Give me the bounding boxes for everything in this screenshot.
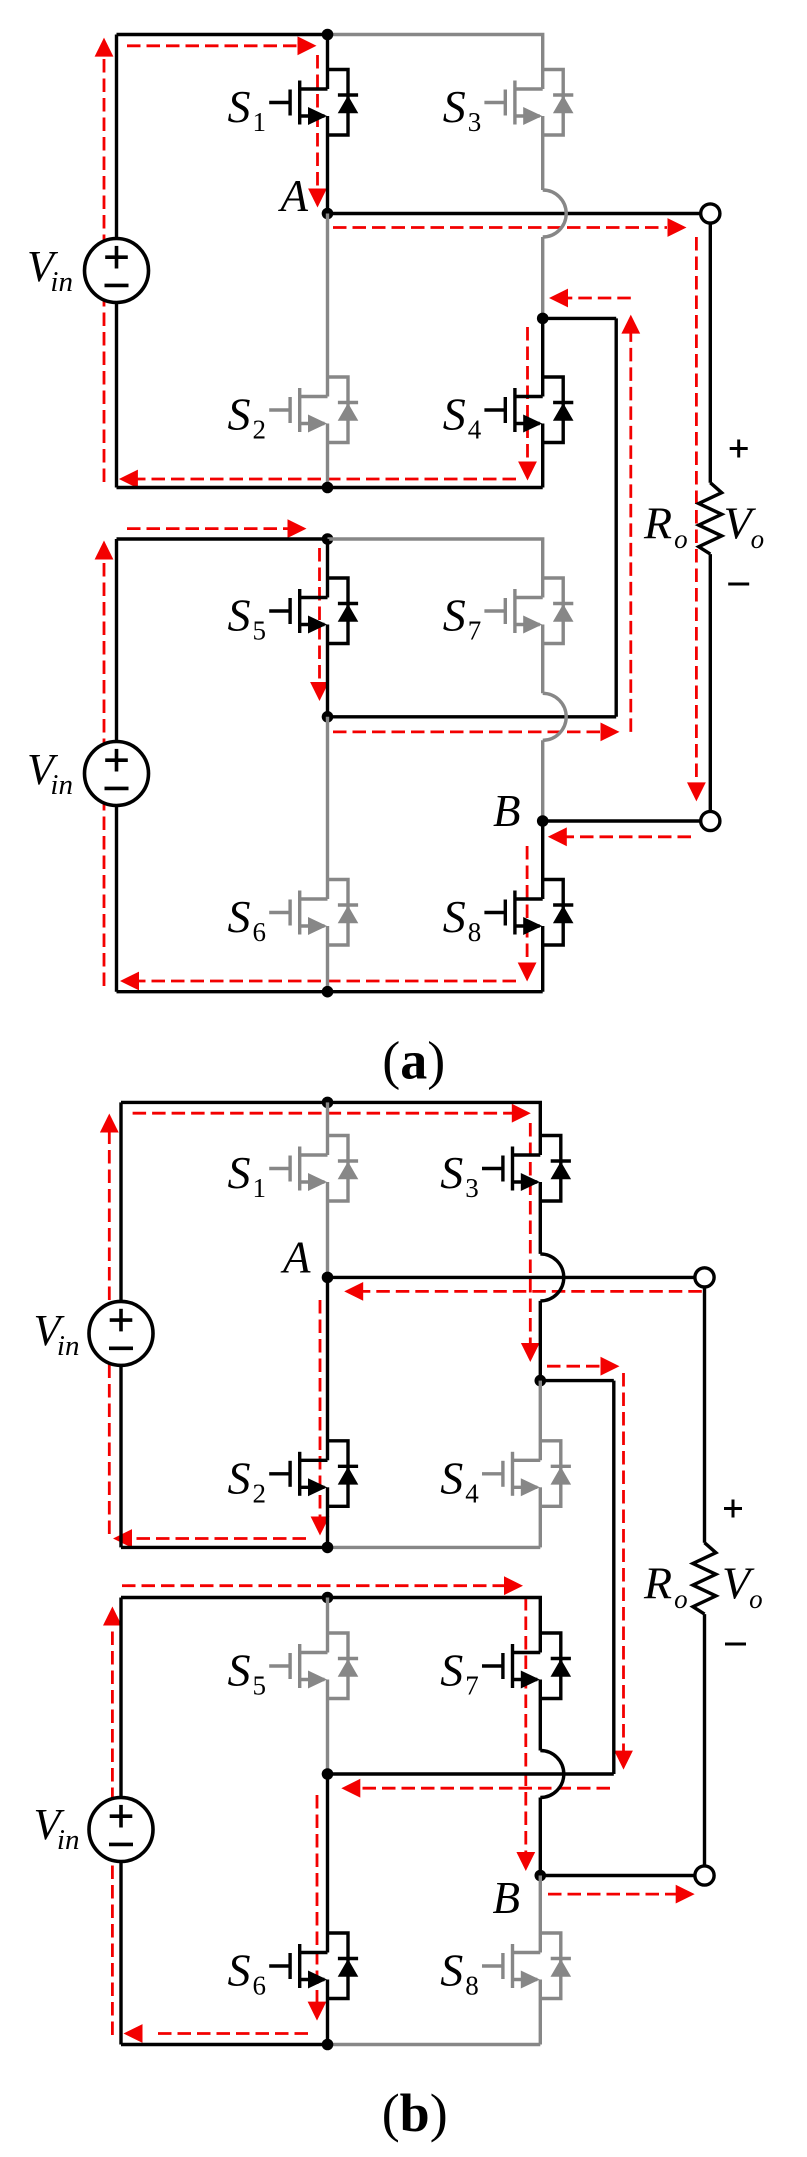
wire: bottom rail bridge 2 fig a	[117, 990, 543, 993]
current path: along top rail fig b	[133, 1112, 517, 1115]
current path: mid node to series link, fig a	[333, 731, 606, 734]
wire: left rail upper, bridge 1 fig b	[119, 1102, 122, 1301]
transistor S8 (off, gray) fig b	[482, 1933, 571, 1999]
svg-text:8: 8	[465, 1971, 479, 2001]
current path: along bottom rail bridge1 fig b	[131, 1537, 306, 1540]
hop: S3 leg crosses node-A wire, fig a	[543, 190, 567, 237]
terminal: output node B circle, fig b	[695, 1866, 714, 1885]
junction dot top rail fig b	[322, 1097, 334, 1109]
wire: left rail lower, bridge 1 fig b	[119, 1365, 122, 1547]
wire: S8 drain lead	[541, 821, 544, 899]
voltage source Vin (bridge 1, fig b)	[89, 1301, 153, 1365]
current path: along bottom rail bridge1 fig a	[137, 478, 516, 481]
svg-text:(a): (a)	[382, 1031, 445, 1091]
wire: node A to output terminal, fig b	[328, 1276, 695, 1279]
svg-text:A: A	[280, 1233, 311, 1283]
wire: top rail bridge1 fig b (Vin+ to S3)	[121, 1102, 540, 1155]
wire: S3 source lead above hop, fig b	[539, 1182, 542, 1254]
svg-text:3: 3	[465, 1173, 479, 1203]
current path: up series link, fig a	[629, 334, 632, 732]
wire: gray S7 source lead above hop	[541, 625, 544, 694]
svg-text:S: S	[440, 1147, 463, 1198]
voltage source Vin (bridge 1, fig a)	[85, 239, 149, 303]
current path: along top rail fig a	[127, 44, 303, 47]
svg-text:Vin: Vin	[34, 1800, 80, 1856]
svg-text:S: S	[443, 590, 466, 641]
current path: series link to mid node, fig b	[360, 1787, 610, 1790]
transistor S6 (off, gray)	[269, 880, 358, 946]
wire: load lower lead, fig b	[703, 1614, 706, 1866]
wire: gray S4 drain lead, fig b	[539, 1381, 542, 1461]
current path: into S4 drain node, fig a	[568, 297, 631, 300]
wire: S2 source lead, fig b	[326, 1487, 329, 1547]
wire: mid node to series link, fig a	[328, 715, 617, 718]
svg-text:S: S	[440, 1645, 463, 1696]
wire: left rail lower, bridge 2 fig b	[119, 1862, 122, 2045]
node A junction dot, fig b	[322, 1272, 334, 1284]
wire: S4 drain lead	[541, 318, 544, 396]
voltage source Vin (bridge 2, fig a)	[85, 742, 149, 806]
svg-text:7: 7	[465, 1671, 479, 1701]
wire: bottom rail bridge 2 fig b (black part)	[121, 2043, 328, 2046]
current path: node A to load, fig a	[333, 226, 667, 229]
node: S4 drain node dot, fig b	[535, 1375, 547, 1387]
wire: series link vertical, fig b	[612, 1381, 615, 1774]
transistor S7 (on, black) fig b	[482, 1633, 571, 1699]
wire: gray S3 source lead above hop	[541, 116, 544, 190]
wire: gray top rail to S3, fig a	[328, 35, 543, 90]
wire: bottom rail bridge 1 fig b (gray part under S4)	[328, 1546, 541, 1549]
node: S4 drain node dot, fig a	[537, 313, 549, 325]
wire: S7 leg below hop to node B, fig b	[539, 1798, 542, 1876]
label + polarity of Vo, fig a	[730, 447, 748, 450]
current path: node B to terminal, fig b	[548, 1893, 676, 1896]
junction dot bridge2 top rail	[322, 533, 334, 545]
wire: S1 source lead to node A	[326, 116, 329, 214]
current path: terminal B to node B, fig a	[566, 835, 691, 838]
wire: top rail bridge 2 fig b (to S7)	[121, 1598, 540, 1653]
terminal: output node B circle, fig a	[701, 811, 720, 830]
label - polarity of Vo, fig b	[725, 1643, 746, 1646]
svg-text:S: S	[228, 1945, 251, 1996]
svg-text:S: S	[228, 891, 251, 942]
svg-text:S: S	[228, 1452, 251, 1503]
current path: down through S4	[526, 327, 529, 463]
wire: bottom rail bridge 2 fig b (gray part under S8)	[328, 2043, 541, 2046]
wire: top rail bridge 2 fig a	[117, 537, 328, 540]
wire: gray S6 source lead	[326, 926, 329, 992]
svg-text:Vin: Vin	[27, 745, 73, 801]
svg-text:Ro: Ro	[643, 498, 688, 555]
junction dot bridge2 top rail, fig b	[322, 1592, 334, 1604]
node B junction dot, fig b	[535, 1870, 547, 1882]
wire: left rail upper, bridge 1 fig a	[115, 35, 118, 239]
wire: node B to output terminal, fig a	[543, 819, 701, 822]
wire: top rail (Vin+ to S1 drain node), bridge 1 fig a	[117, 33, 328, 36]
svg-text:S: S	[228, 1645, 251, 1696]
resistor Ro, fig b	[693, 1543, 716, 1614]
svg-text:Ro: Ro	[643, 1558, 688, 1615]
svg-text:S: S	[440, 1452, 463, 1503]
hop: S3 leg crosses node-A wire, fig b	[540, 1254, 563, 1301]
svg-text:5: 5	[253, 616, 267, 646]
svg-text:A: A	[278, 171, 309, 221]
svg-text:6: 6	[253, 917, 267, 947]
svg-text:S: S	[443, 81, 466, 132]
wire: gray S5 drain lead, fig b	[326, 1598, 329, 1653]
wire: left rail lower, bridge 2 fig a	[115, 806, 118, 992]
label + polarity of Vo, fig b	[724, 1507, 742, 1510]
wire: gray S1 drain lead, fig b	[326, 1102, 329, 1155]
current path: down through S5	[318, 548, 321, 683]
current path: down through load, fig a	[695, 237, 698, 782]
svg-text:(b): (b)	[382, 2083, 448, 2143]
wire: S5 source lead to mid node	[326, 625, 329, 717]
wire: node B to output terminal, fig b	[540, 1874, 695, 1877]
wire: bottom rail bridge 1 fig b (black part)	[121, 1546, 328, 1549]
svg-text:7: 7	[468, 616, 482, 646]
wire: gray S2 source lead	[326, 424, 329, 488]
wire: S6 source lead, fig b	[326, 1980, 329, 2045]
junction dot S2 source on bottom rail	[322, 482, 334, 494]
wire: gray S7 leg below hop to node B	[541, 740, 544, 821]
current path: down through S7 fig b	[524, 1597, 527, 1853]
svg-text:S: S	[228, 389, 251, 440]
transistor S1 (off, gray) fig b	[269, 1136, 358, 1202]
svg-text:B: B	[493, 786, 521, 836]
svg-text:3: 3	[468, 107, 482, 137]
wire: S4 node to series link, fig b	[540, 1379, 614, 1382]
junction dot S6 source on bottom rail	[322, 986, 334, 998]
wire: load upper lead, fig a	[709, 223, 712, 483]
svg-text:S: S	[228, 81, 251, 132]
wire: gray S5 source lead to mid node, fig b	[326, 1680, 329, 1775]
wire: S6 drain lead from mid node, fig b	[326, 1774, 329, 1953]
transistor S5 (off, gray) fig b	[269, 1633, 358, 1699]
svg-text:S: S	[228, 590, 251, 641]
node A junction dot, fig a	[322, 208, 334, 220]
wire: bottom rail bridge 1 fig a	[117, 486, 543, 489]
wire: gray S8 drain lead, fig b	[539, 1876, 542, 1953]
svg-text:B: B	[493, 1873, 521, 1923]
hop: S7 leg crosses mid wire, fig b	[540, 1751, 563, 1798]
svg-text:6: 6	[253, 1971, 267, 2001]
current path: along bottom rail bridge2 fig b	[152, 2032, 308, 2035]
transistor S7 (off, gray)	[484, 578, 573, 644]
current path: terminal A to node A, fig b	[363, 1290, 702, 1293]
wire: S4 source lead to bottom rail	[541, 424, 544, 488]
transistor S4 (on, black)	[484, 377, 573, 443]
current path: down series link, fig b	[622, 1373, 625, 1751]
current path: down through S6 fig b	[316, 1795, 319, 2002]
transistor S2 (off, gray)	[269, 377, 358, 443]
current path: down through S8	[526, 846, 529, 963]
transistor S3 (on, black) fig b	[482, 1136, 571, 1202]
svg-text:S: S	[228, 1147, 251, 1198]
wire: S4 node to series link, fig a	[543, 317, 617, 320]
wire: gray S2 drain lead from node A	[326, 214, 329, 397]
transistor S3 (off, gray)	[484, 70, 573, 136]
svg-text:Vo: Vo	[724, 498, 765, 555]
transistor S1 (on, black)	[269, 70, 358, 136]
wire: S3 leg below hop to S4 node, fig b	[539, 1301, 542, 1381]
svg-text:8: 8	[468, 917, 482, 947]
svg-text:1: 1	[253, 107, 267, 137]
hop: S7 leg crosses mid wire, fig a	[543, 693, 567, 740]
svg-text:2: 2	[253, 1478, 267, 1508]
wire: node A to output terminal, fig a	[328, 212, 701, 215]
wire: load lower lead, fig a	[709, 554, 712, 811]
wire: gray S3 leg below hop to S4 drain node	[541, 237, 544, 318]
current path: along top rail bridge2 fig b	[122, 1584, 509, 1587]
svg-text:S: S	[443, 389, 466, 440]
current path: up left rail bridge1 fig a	[103, 57, 106, 482]
wire: S5 drain lead	[326, 539, 329, 598]
wire: S7 source lead above hop, fig b	[539, 1680, 542, 1751]
current path: down through S2 fig b	[319, 1300, 322, 1517]
wire: series link vertical, fig a	[615, 318, 618, 716]
current path: up left rail bridge2 fig b	[111, 1625, 114, 2035]
current path: S4 node to series link, fig b	[547, 1365, 606, 1368]
transistor S2 (on, black) fig b	[269, 1441, 358, 1507]
current path: up left rail bridge1 fig b	[108, 1132, 111, 1534]
node: bridge2 mid node dot, fig a	[322, 711, 334, 723]
wire: S2 drain lead from node A, fig b	[326, 1277, 329, 1460]
label - polarity of Vo, fig a	[728, 583, 749, 586]
junction dot S6 source on bottom rail, fig b	[322, 2039, 334, 2051]
current path: up left rail bridge2 fig a	[103, 559, 106, 986]
transistor S4 (off, gray) fig b	[482, 1441, 571, 1507]
node: bridge2 mid node dot, fig b	[322, 1768, 334, 1780]
wire: gray S6 drain lead	[326, 717, 329, 899]
wire: S8 source lead to bottom rail	[541, 926, 544, 992]
svg-text:Vo: Vo	[722, 1558, 763, 1615]
svg-text:4: 4	[465, 1478, 479, 1508]
junction dot top rail fig a	[322, 29, 334, 41]
svg-text:2: 2	[253, 415, 267, 445]
current path: along bottom rail bridge2 fig a	[139, 980, 516, 983]
wire: gray S8 source lead, fig b	[539, 1980, 542, 2045]
svg-text:S: S	[440, 1945, 463, 1996]
wire: gray S4 source lead, fig b	[539, 1487, 542, 1547]
current path: down through S3 fig b	[529, 1123, 532, 1344]
wire: mid node to series link, fig b	[328, 1772, 614, 1775]
svg-text:4: 4	[468, 415, 482, 445]
terminal: output node A circle, fig b	[695, 1268, 714, 1287]
svg-text:Vin: Vin	[34, 1306, 80, 1362]
wire: left rail upper, bridge 2 fig b	[119, 1598, 122, 1798]
wire: load upper lead, fig b	[703, 1287, 706, 1543]
svg-text:5: 5	[253, 1671, 267, 1701]
wire: left rail lower, bridge 1 fig a	[115, 303, 118, 488]
wire: gray S1 source lead to node A, fig b	[326, 1182, 329, 1277]
transistor S6 (on, black) fig b	[269, 1933, 358, 1999]
wire: S1 drain lead	[326, 35, 329, 90]
wire: gray top rail to S7, fig a	[328, 539, 543, 598]
transistor S8 (on, black)	[484, 880, 573, 946]
transistor S5 (on, black)	[269, 578, 358, 644]
wire: left rail upper, bridge 2 fig a	[115, 539, 118, 742]
junction dot S2 source on bottom rail, fig b	[322, 1542, 334, 1554]
current path: along top rail bridge2 fig a	[127, 527, 293, 530]
svg-text:Vin: Vin	[27, 242, 73, 298]
terminal: output node A circle, fig a	[701, 204, 720, 223]
svg-text:1: 1	[253, 1173, 267, 1203]
voltage source Vin (bridge 2, fig b)	[89, 1798, 153, 1862]
svg-text:S: S	[443, 891, 466, 942]
node B junction dot, fig a	[537, 815, 549, 827]
resistor Ro, fig a	[699, 483, 722, 554]
current path: down through S1	[316, 55, 319, 189]
